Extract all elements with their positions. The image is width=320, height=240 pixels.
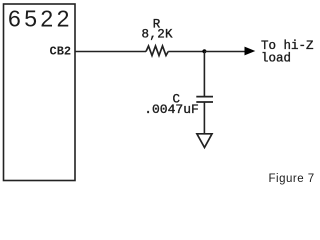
arrow to hi-Z load	[245, 47, 256, 56]
svg-text:Figure 7: Figure 7	[269, 173, 315, 185]
wire node to arrow	[204, 51, 245, 53]
wire resistor to node	[168, 51, 204, 53]
svg-text:6522: 6522	[8, 6, 73, 32]
svg-text:.0047uF: .0047uF	[144, 102, 199, 117]
svg-text:load: load	[261, 51, 291, 65]
ground	[197, 134, 212, 148]
node junction	[202, 49, 206, 53]
wire CB2 to resistor	[75, 51, 146, 53]
svg-text:8,2K: 8,2K	[142, 28, 174, 42]
capacitor C top plate	[196, 96, 213, 98]
wire capacitor to ground	[203, 102, 205, 134]
wire node to capacitor	[203, 52, 205, 97]
resistor R	[146, 46, 168, 56]
IC U1 6522	[4, 4, 76, 181]
capacitor C bottom plate	[196, 101, 213, 103]
svg-text:CB2: CB2	[50, 45, 72, 59]
